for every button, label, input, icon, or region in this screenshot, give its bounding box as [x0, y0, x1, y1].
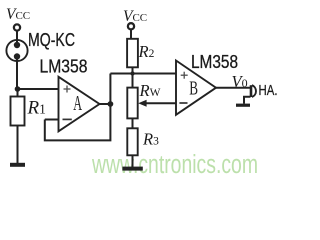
- wire VCC2 terminal to R2: [130, 29, 132, 38]
- resistor R2: [127, 39, 138, 68]
- op-amp U1A: [59, 77, 100, 132]
- wire main bus to op-amp B + input: [110, 73, 176, 75]
- wire RW wiper to op-amp B minus input: [146, 102, 177, 104]
- wire buzzer to ground step: [244, 97, 251, 104]
- wire op-amp B output: [216, 87, 251, 89]
- svg-text:A: A: [73, 91, 82, 115]
- buzzer HA flat bar: [250, 85, 253, 97]
- minus sign A: [63, 118, 72, 120]
- wire op-amp A minus input: [45, 119, 59, 121]
- svg-text:R2: R2: [138, 42, 155, 61]
- ground under R1: [10, 163, 25, 167]
- wire R3 bottom to ground: [132, 155, 134, 167]
- op-amp U1B: [176, 61, 216, 115]
- wire R1 top stub: [17, 89, 19, 97]
- svg-text:LM358: LM358: [40, 57, 88, 77]
- wire RW bottom to R3 top: [132, 118, 134, 128]
- svg-text:RW: RW: [139, 81, 161, 100]
- svg-text:MQ-KC: MQ-KC: [28, 30, 75, 50]
- svg-text:LM358: LM358: [191, 52, 238, 72]
- wire op-amp A output: [100, 103, 111, 105]
- svg-text:B: B: [189, 79, 198, 100]
- svg-text:V0: V0: [232, 72, 248, 91]
- wire node to op-amp A + input: [18, 88, 59, 90]
- wire R1 bottom to ground: [17, 126, 19, 164]
- junction dot R2/RW/bus: [130, 71, 134, 75]
- resistor R1: [11, 97, 25, 126]
- gas sensor MQ-KC body: [6, 40, 27, 61]
- terminal VCC2: [128, 23, 134, 29]
- svg-text:VCC: VCC: [123, 8, 147, 25]
- wire R2 bottom to RW top: [132, 67, 134, 87]
- sensor electrode top: [14, 42, 20, 48]
- svg-text:VCC: VCC: [6, 6, 30, 23]
- wire sensor bottom to node A: [16, 57, 18, 90]
- svg-text:www.cntronics.com: www.cntronics.com: [91, 151, 258, 178]
- output node dot A: [108, 101, 114, 107]
- sensor electrode bottom: [14, 53, 20, 59]
- potentiometer RW: [127, 88, 137, 119]
- svg-text:HA.: HA.: [259, 83, 278, 99]
- svg-text:R3: R3: [142, 130, 159, 149]
- wire feedback loop of op-amp A: [45, 104, 111, 140]
- node junction dot left: [15, 86, 21, 92]
- wire VCC terminal to sensor: [16, 31, 18, 46]
- ground under R3: [122, 167, 142, 171]
- wiper arrow of RW: [138, 100, 146, 107]
- ground under buzzer: [236, 104, 250, 107]
- plus sign A: [64, 86, 71, 93]
- wire output node up: [109, 74, 111, 105]
- resistor R3: [127, 128, 137, 155]
- plus sign B: [181, 72, 188, 79]
- svg-text:R1: R1: [27, 98, 46, 119]
- buzzer HA dome: [252, 85, 256, 97]
- terminal VCC1: [14, 24, 20, 30]
- minus sign B: [179, 102, 187, 104]
